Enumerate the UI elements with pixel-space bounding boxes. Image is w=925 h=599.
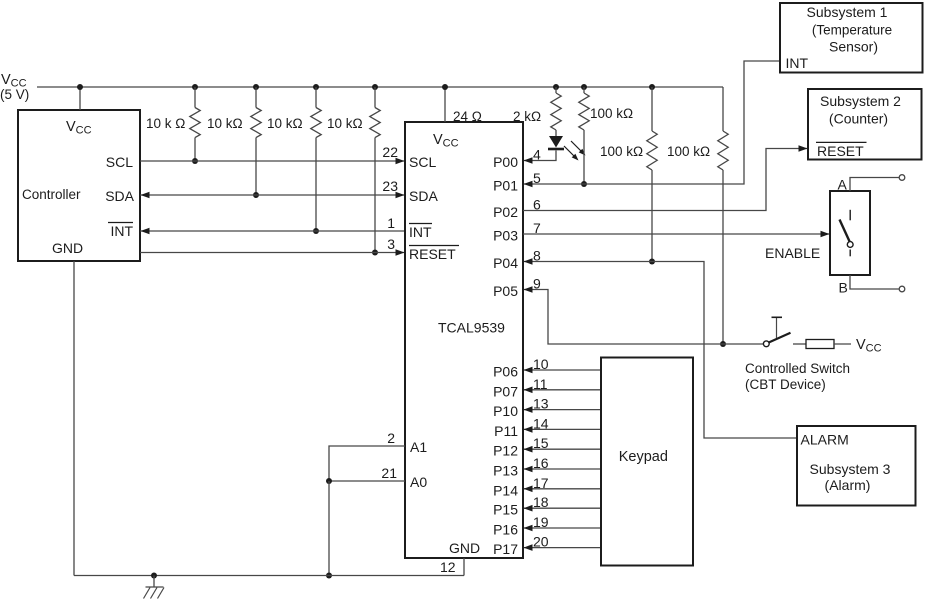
- svg-text:P07: P07: [493, 383, 518, 399]
- svg-text:100 kΩ: 100 kΩ: [600, 144, 643, 159]
- junction R3 bottom: [313, 228, 319, 234]
- CBT switch lever: [769, 333, 791, 343]
- junction R6-P01: [581, 181, 587, 187]
- svg-text:10: 10: [533, 356, 549, 372]
- svg-text:Subsystem 3: Subsystem 3: [810, 461, 891, 477]
- svg-text:Subsystem 1: Subsystem 1: [807, 4, 888, 20]
- wire INT: [140, 230, 405, 232]
- svg-text:23: 23: [382, 178, 398, 194]
- resistor R9 series: [806, 340, 834, 349]
- wire P12 to keypad: [524, 448, 601, 450]
- arrow P01 into U1: [524, 181, 533, 188]
- svg-text:B: B: [839, 280, 848, 296]
- arrow P03 into switch: [821, 231, 830, 238]
- svg-text:1: 1: [387, 215, 395, 231]
- arrow P02 into Subsystem2: [799, 145, 808, 152]
- junction rail-controller: [77, 84, 83, 90]
- wire R4 down: [374, 138, 376, 253]
- wire ground bus: [74, 575, 464, 577]
- svg-text:P13: P13: [493, 463, 518, 479]
- svg-text:22: 22: [382, 144, 398, 160]
- svg-text:15: 15: [533, 435, 549, 451]
- svg-text:P11: P11: [494, 423, 518, 439]
- svg-text:P00: P00: [493, 154, 518, 170]
- svg-text:16: 16: [533, 455, 549, 471]
- wire rail to R2: [255, 87, 257, 108]
- wire R9 to VCC: [834, 343, 851, 345]
- svg-text:P10: P10: [493, 403, 518, 419]
- resistor R5 2 k: [551, 93, 561, 130]
- wire rail to R6: [583, 87, 585, 93]
- resistor R7 100 k: [647, 131, 657, 170]
- wire P07 to keypad: [524, 389, 601, 391]
- terminal B circle: [899, 286, 905, 292]
- svg-text:18: 18: [533, 494, 549, 510]
- wire SCL: [140, 160, 404, 162]
- CBT gate terminal: [776, 318, 778, 338]
- resistor R1 10 k: [190, 108, 200, 138]
- arrow INT into controller: [141, 228, 150, 235]
- wire R6 to P01: [583, 130, 585, 184]
- svg-text:INT: INT: [110, 223, 133, 239]
- arrow P17 into U1: [524, 544, 533, 551]
- wire rail to R4: [374, 87, 376, 108]
- junction R2 bottom: [253, 192, 259, 198]
- S1 lever: [840, 220, 850, 243]
- wire rail to R3: [315, 87, 317, 108]
- junction ground symbol: [151, 573, 157, 579]
- resistor R3 10 k: [311, 108, 321, 138]
- svg-text:ENABLE: ENABLE: [765, 245, 820, 261]
- resistor R6 100 k: [579, 93, 589, 130]
- wire P01 from Subsystem1 INT: [524, 61, 780, 184]
- junction rail-U1 VCC: [442, 84, 448, 90]
- svg-text:Controller: Controller: [22, 187, 81, 202]
- arrow SDA into U1: [396, 192, 405, 199]
- svg-text:Subsystem 2: Subsystem 2: [820, 93, 901, 109]
- wire P16 to keypad: [524, 527, 601, 529]
- svg-text:4: 4: [533, 147, 541, 163]
- wire R5 to LED: [555, 130, 557, 136]
- svg-text:RESET: RESET: [817, 143, 864, 159]
- svg-text:7: 7: [533, 220, 541, 236]
- junction A1-A0: [326, 478, 332, 484]
- ground symbol: [153, 576, 155, 588]
- svg-text:9: 9: [533, 276, 541, 292]
- svg-text:Keypad: Keypad: [619, 449, 668, 465]
- arrow P14 into U1: [524, 486, 533, 493]
- svg-text:8: 8: [533, 248, 541, 264]
- wire P04 from Subsystem3 ALARM: [524, 262, 797, 439]
- wire R8 to switch net: [722, 170, 724, 344]
- svg-text:SDA: SDA: [105, 188, 134, 204]
- svg-text:P04: P04: [493, 255, 518, 271]
- wire VCC to controller: [79, 87, 81, 110]
- svg-text:INT: INT: [409, 224, 432, 240]
- svg-text:A: A: [838, 177, 848, 193]
- svg-text:A1: A1: [410, 439, 427, 455]
- arrow P06 into U1: [524, 367, 533, 374]
- resistor R8 100 k: [718, 131, 728, 170]
- arrow P16 into U1: [524, 525, 533, 532]
- svg-text:P02: P02: [493, 204, 518, 220]
- wire rail corner to R8: [722, 87, 724, 131]
- junction rail R1: [192, 84, 198, 90]
- svg-text:RESET: RESET: [409, 246, 456, 262]
- wire P15 to keypad: [524, 507, 601, 509]
- wire S1 terminal A: [850, 178, 899, 192]
- wire A0: [329, 480, 405, 482]
- junction rail R2: [253, 84, 259, 90]
- svg-text:20: 20: [533, 534, 549, 550]
- CBT switch pole circle: [763, 341, 769, 347]
- wire RESET: [140, 252, 404, 254]
- arrow P00 into U1: [524, 157, 533, 164]
- switch S1 block: [830, 191, 870, 275]
- svg-text:19: 19: [533, 514, 549, 530]
- junction R4 bottom: [372, 250, 378, 256]
- wire A0 to ground: [328, 481, 330, 576]
- wire P14 to keypad: [524, 488, 601, 490]
- svg-text:GND: GND: [52, 240, 83, 256]
- svg-text:P05: P05: [493, 283, 518, 299]
- svg-text:Controlled Switch: Controlled Switch: [745, 361, 850, 376]
- S1 contact lower: [849, 250, 851, 257]
- U1 TCAL9539 block: [405, 122, 523, 558]
- resistor R2 10 k: [251, 108, 261, 138]
- svg-text:100 kΩ: 100 kΩ: [590, 106, 633, 121]
- svg-text:ALARM: ALARM: [801, 432, 849, 448]
- svg-text:24 Ω: 24 Ω: [453, 109, 482, 124]
- svg-text:3: 3: [387, 236, 395, 252]
- svg-text:P14: P14: [493, 482, 518, 498]
- svg-text:11: 11: [533, 376, 548, 392]
- controller block: [18, 110, 140, 261]
- keypad block: [601, 358, 693, 566]
- wire P17 to keypad: [524, 547, 601, 549]
- svg-text:6: 6: [533, 197, 541, 213]
- wire U1 GND down: [463, 558, 465, 576]
- wire CBT to R9: [793, 343, 806, 345]
- junction rail R3: [313, 84, 319, 90]
- wire P02 to Subsystem2 RESET: [523, 149, 807, 211]
- wire controller GND down: [73, 261, 75, 576]
- LED D1: [549, 136, 563, 148]
- arrow P12 into U1: [524, 446, 533, 453]
- svg-text:12: 12: [440, 559, 456, 575]
- LED light arrows: [564, 146, 576, 158]
- S1 contact upper: [849, 210, 851, 221]
- wire SDA: [140, 194, 404, 196]
- svg-text:10 kΩ: 10 kΩ: [207, 116, 243, 131]
- arrow SDA into controller: [141, 192, 150, 199]
- svg-text:Sensor): Sensor): [829, 39, 878, 55]
- arrow P10 into U1: [524, 406, 533, 413]
- subsystem 2 block: [808, 89, 922, 160]
- wire S1 terminal B: [850, 275, 899, 289]
- subsystem 1 block: [780, 3, 923, 73]
- arrow P07 into U1: [524, 387, 533, 394]
- wire rail to R7: [651, 87, 653, 131]
- svg-text:SDA: SDA: [409, 188, 438, 204]
- svg-text:(Temperature: (Temperature: [812, 23, 892, 38]
- svg-text:P03: P03: [493, 228, 518, 244]
- arrow P05 into U1: [524, 286, 533, 293]
- wire P06 to keypad: [524, 369, 601, 371]
- arrow P11 into U1: [524, 426, 533, 433]
- junction rail R7: [649, 84, 655, 90]
- wire P11 to keypad: [524, 428, 601, 430]
- wire P03 to ENABLE switch: [523, 233, 829, 235]
- wire VCC to U1: [444, 87, 446, 122]
- svg-text:(5 V): (5 V): [0, 87, 29, 102]
- svg-text:P01: P01: [493, 178, 518, 194]
- wire R1 down: [194, 138, 196, 161]
- wire P10 to keypad: [524, 409, 601, 411]
- wire rail to R1: [194, 87, 196, 108]
- svg-text:10 kΩ: 10 kΩ: [327, 116, 363, 131]
- svg-text:10 kΩ: 10 kΩ: [267, 116, 303, 131]
- junction A0-ground: [326, 573, 332, 579]
- svg-text:21: 21: [381, 465, 397, 481]
- svg-text:10 k Ω: 10 k Ω: [146, 116, 185, 131]
- svg-text:TCAL9539: TCAL9539: [438, 320, 505, 336]
- terminal A circle: [899, 175, 905, 181]
- resistor R4 10 k: [370, 108, 380, 138]
- junction R1 bottom: [192, 158, 198, 164]
- wire A1: [329, 446, 405, 481]
- svg-text:5: 5: [533, 170, 541, 186]
- svg-text:P17: P17: [493, 541, 518, 557]
- svg-text:SCL: SCL: [106, 154, 133, 170]
- junction R8-switch: [720, 341, 726, 347]
- junction rail 2k: [553, 84, 559, 90]
- arrow P13 into U1: [524, 466, 533, 473]
- subsystem 3 block: [797, 426, 916, 506]
- arrow RESET into U1: [396, 249, 405, 256]
- arrow P15 into U1: [524, 505, 533, 512]
- svg-text:A0: A0: [410, 474, 427, 490]
- svg-text:17: 17: [533, 475, 549, 491]
- svg-text:2 kΩ: 2 kΩ: [513, 109, 541, 124]
- wire rail to R5: [555, 87, 557, 93]
- svg-text:GND: GND: [449, 540, 480, 556]
- svg-text:P16: P16: [493, 522, 518, 538]
- junction R7-P04: [649, 259, 655, 265]
- svg-text:P15: P15: [493, 502, 518, 518]
- svg-text:14: 14: [533, 415, 549, 431]
- svg-text:P12: P12: [493, 443, 518, 459]
- wire P05 to controlled switch: [524, 290, 763, 345]
- wire R7 to P04: [651, 170, 653, 262]
- svg-text:(Alarm): (Alarm): [825, 477, 871, 493]
- svg-text:100 kΩ: 100 kΩ: [667, 144, 710, 159]
- S1 pole circle: [847, 242, 853, 248]
- wire LED to P00: [524, 151, 556, 161]
- net VCC power rail (5 V): [37, 86, 723, 88]
- svg-text:(CBT Device): (CBT Device): [745, 377, 826, 392]
- wire R2 down: [255, 138, 257, 195]
- svg-text:P06: P06: [493, 364, 518, 380]
- svg-text:2: 2: [387, 430, 395, 446]
- junction rail R4: [372, 84, 378, 90]
- wire P13 to keypad: [524, 468, 601, 470]
- svg-text:INT: INT: [786, 55, 809, 71]
- arrow P04 into U1: [524, 258, 533, 265]
- arrow SCL into U1: [396, 158, 405, 165]
- wire R3 down: [315, 138, 317, 231]
- svg-text:SCL: SCL: [409, 154, 436, 170]
- svg-text:13: 13: [533, 396, 549, 412]
- junction rail R6: [581, 84, 587, 90]
- svg-text:(Counter): (Counter): [829, 111, 888, 127]
